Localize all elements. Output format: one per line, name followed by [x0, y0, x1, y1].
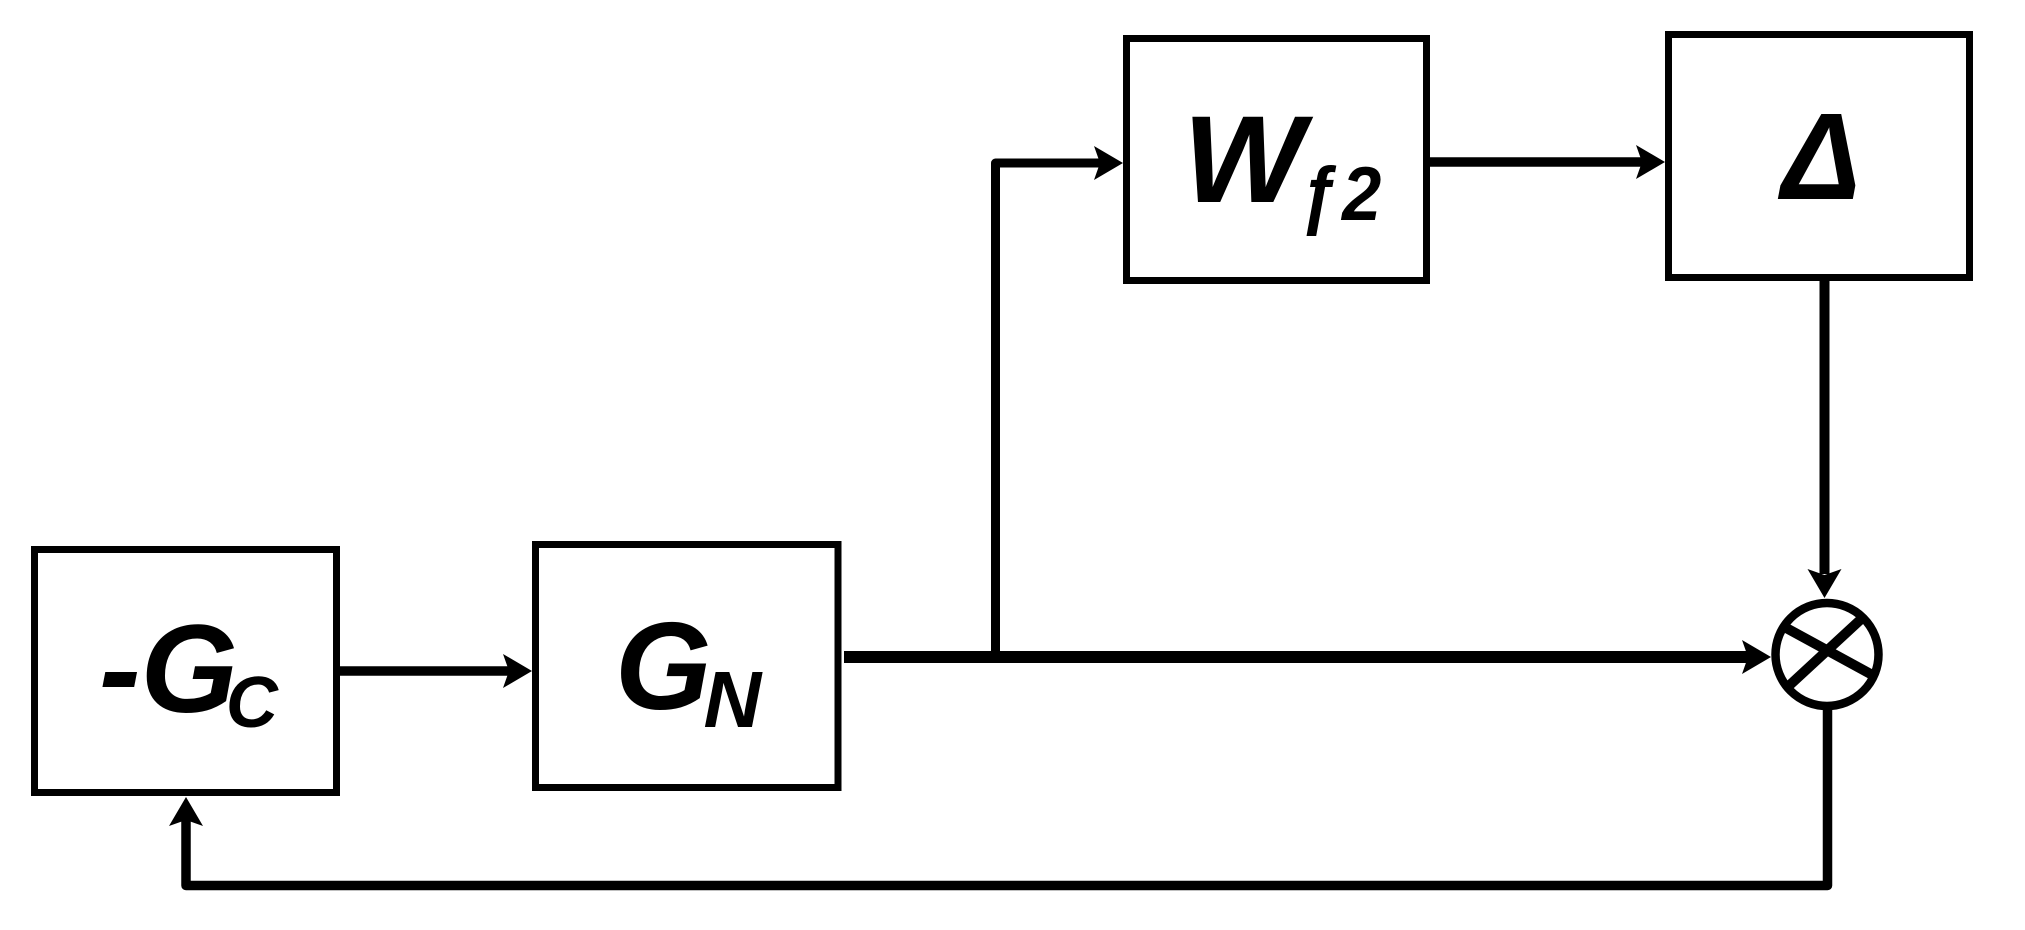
svg-text:GN: GN: [615, 598, 763, 744]
svg-text:W: W: [1183, 90, 1314, 229]
svg-text:Δ: Δ: [1778, 87, 1861, 225]
svg-text:-GC: -GC: [99, 600, 279, 743]
svg-text:ƒ2: ƒ2: [1299, 152, 1382, 237]
